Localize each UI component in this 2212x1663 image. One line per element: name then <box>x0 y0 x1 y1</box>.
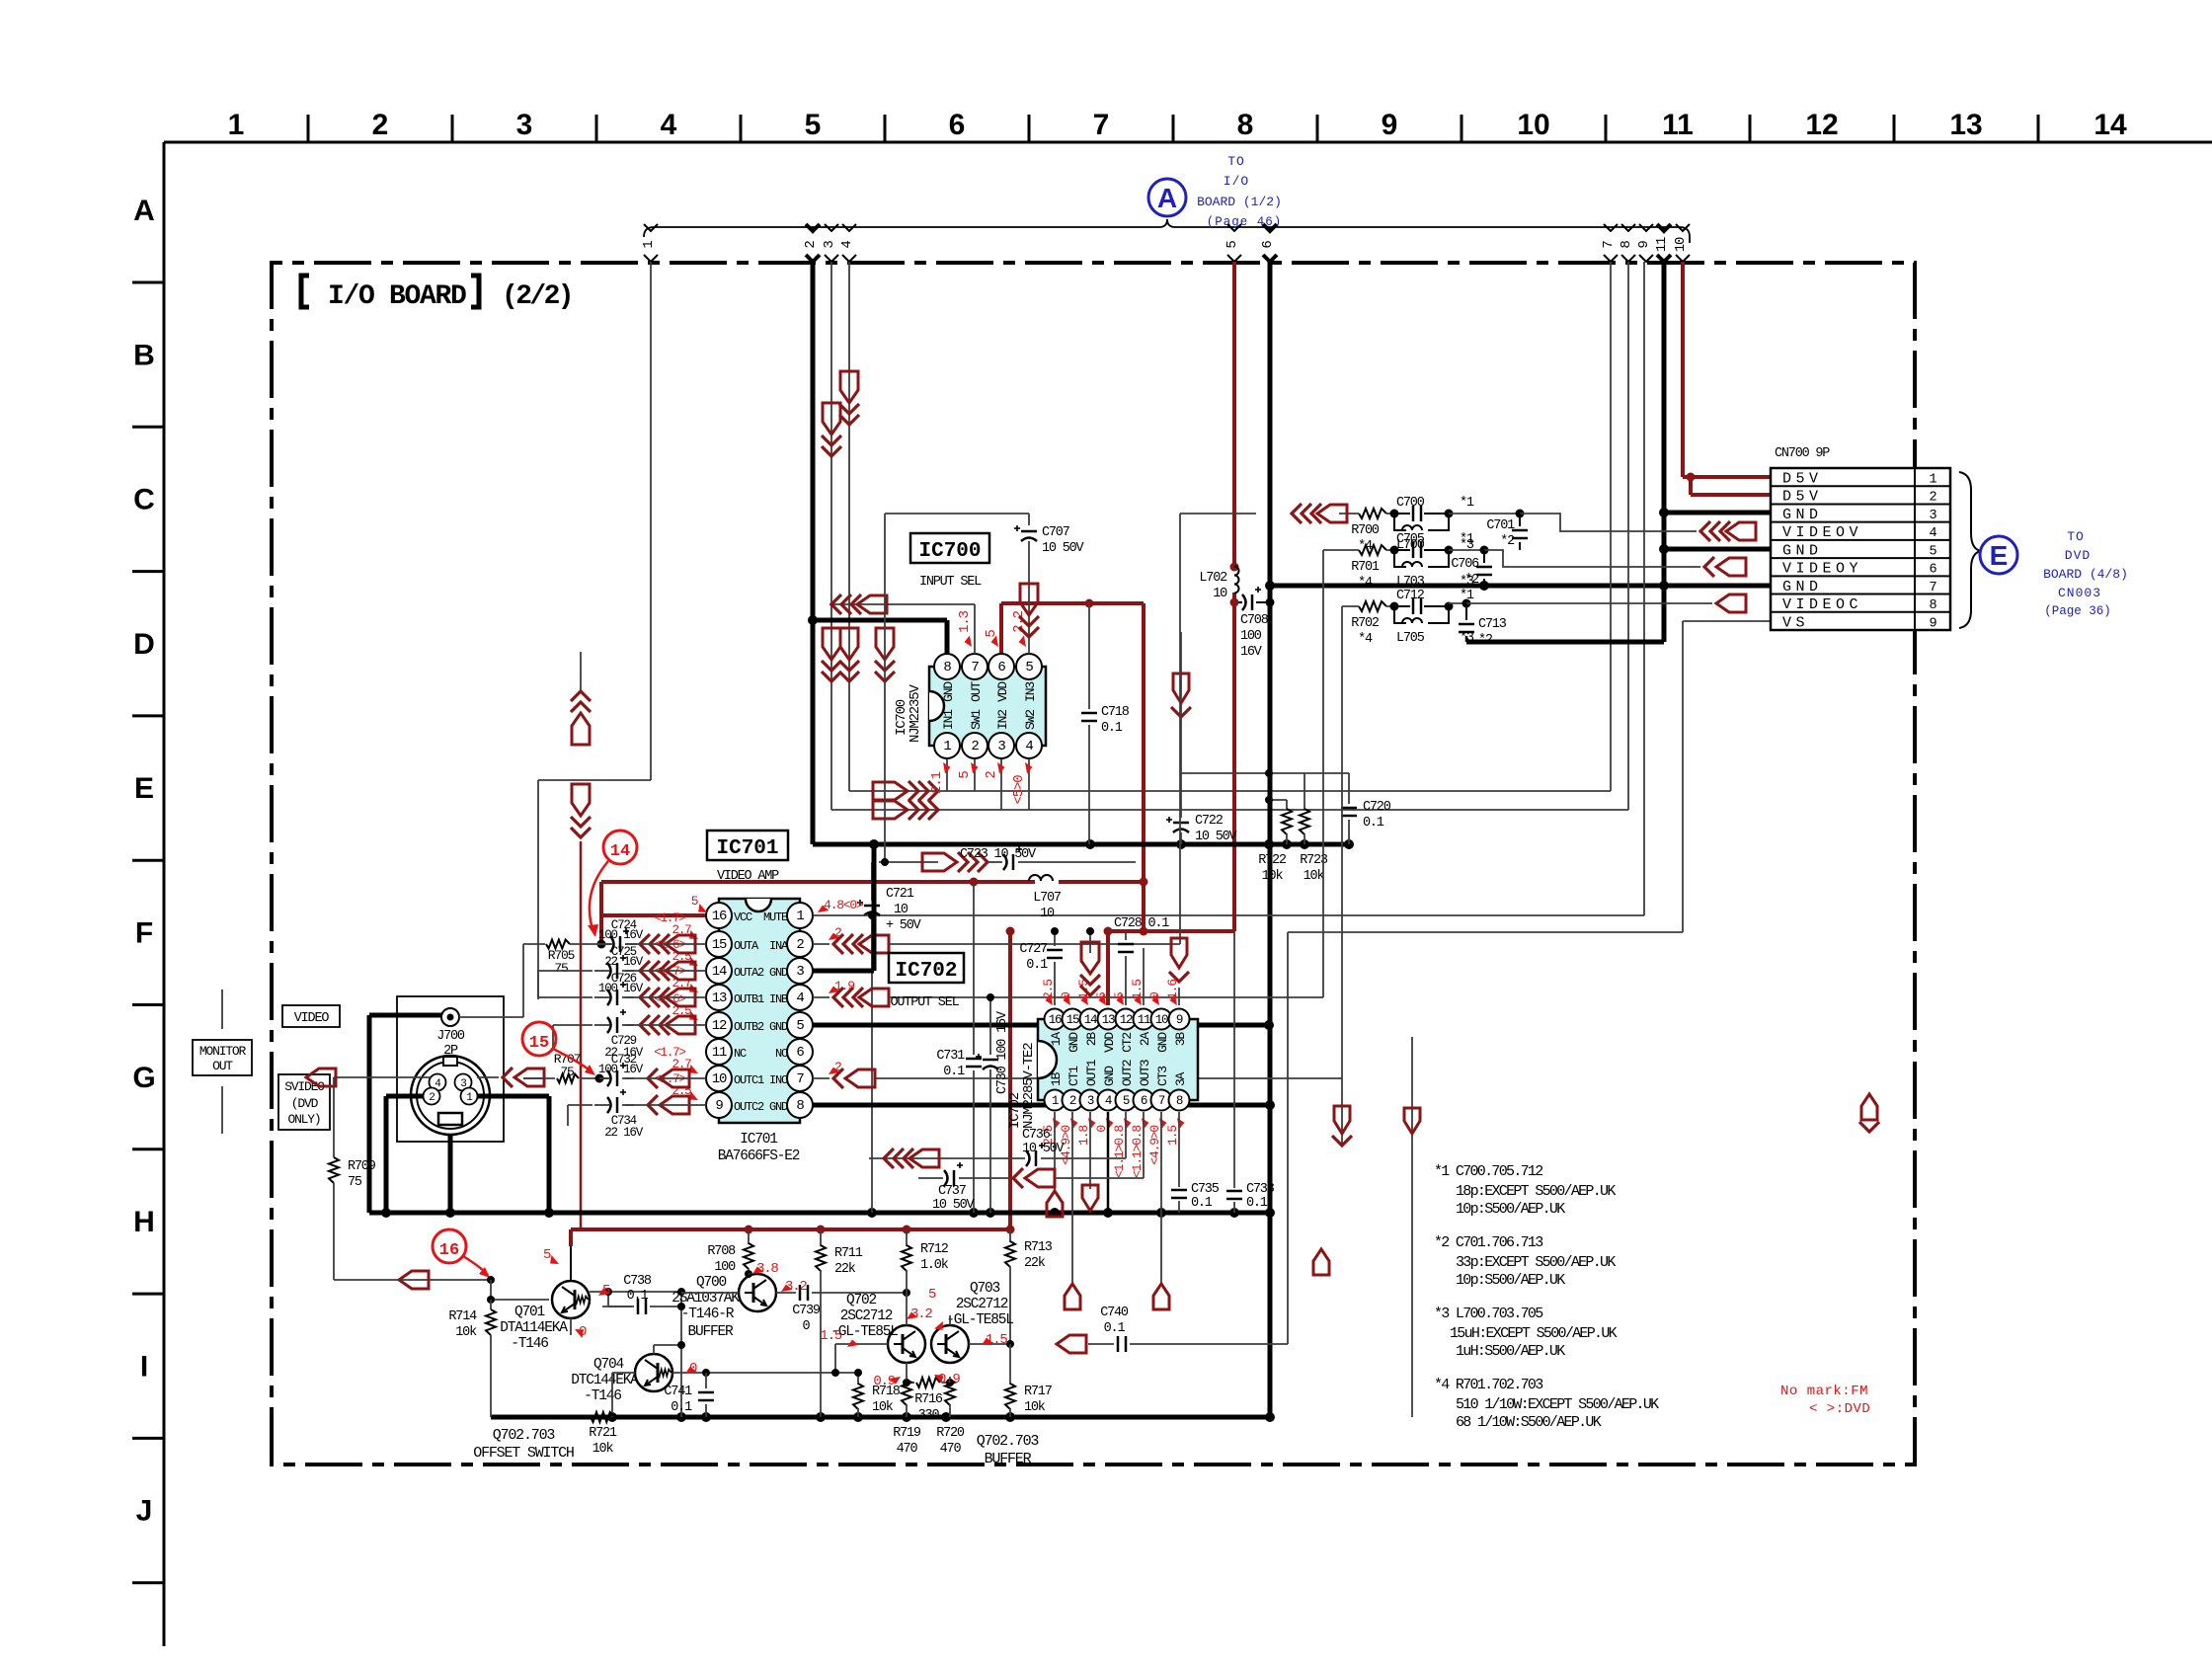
svg-text:2: 2 <box>429 1092 434 1104</box>
svg-text:GND: GND <box>769 1020 788 1034</box>
svg-text:C723 10 50V: C723 10 50V <box>960 847 1037 862</box>
op-amp IC700 (input select) <box>894 654 1046 758</box>
svg-text:L705: L705 <box>1396 631 1425 646</box>
resistor R722 <box>1258 800 1292 884</box>
svg-text:IC702: IC702 <box>895 960 957 983</box>
wire tag3 <box>831 262 1628 810</box>
bottom rail buffers <box>491 1412 1275 1422</box>
svg-text:10 50V: 10 50V <box>932 1198 976 1213</box>
svg-text:12: 12 <box>1805 109 1838 141</box>
capacitor C708 <box>1240 587 1269 660</box>
svg-text:L703: L703 <box>1396 575 1425 590</box>
resistor R723 <box>1300 773 1328 884</box>
svg-text:100: 100 <box>714 1260 736 1275</box>
svg-text:*2: *2 <box>1500 534 1515 549</box>
svg-text:22 16V: 22 16V <box>604 955 644 969</box>
capacitor C720 <box>1341 773 1391 844</box>
transistor Q700 <box>671 1274 776 1340</box>
svg-text:OUTB1: OUTB1 <box>734 992 764 1006</box>
svg-text:2: 2 <box>984 771 999 779</box>
svg-text:5: 5 <box>805 109 822 141</box>
label IC701 <box>707 831 788 884</box>
svg-text:7: 7 <box>971 660 979 675</box>
svg-text:0.1: 0.1 <box>671 1400 692 1415</box>
op-amp IC701 (video amp) <box>706 899 813 1123</box>
svg-text:C738: C738 <box>623 1274 652 1289</box>
svg-text:7: 7 <box>796 1071 804 1087</box>
svg-text:11: 11 <box>712 1045 727 1061</box>
svg-text:Q703: Q703 <box>970 1281 1000 1297</box>
op-amp IC702 (output select) <box>1007 1009 1198 1130</box>
note no-mark (red) <box>1780 1384 1870 1417</box>
svg-text:BUFFER: BUFFER <box>687 1324 734 1340</box>
connector A circle <box>1148 179 1186 216</box>
svg-text:C730 100 16V: C730 100 16V <box>995 1010 1010 1094</box>
svg-text:9: 9 <box>715 1098 723 1114</box>
capacitor C721 <box>857 862 922 1213</box>
svg-text:1: 1 <box>943 739 951 754</box>
bus to I/O board 1/2 <box>644 219 1690 243</box>
svg-text:VS: VS <box>1782 614 1809 631</box>
arrow VIDEOY <box>1704 557 1746 577</box>
svg-text:10 50V: 10 50V <box>1195 830 1238 844</box>
svg-text:33p:EXCEPT S500/AEP.UK: 33p:EXCEPT S500/AEP.UK <box>1456 1254 1616 1271</box>
capacitor C738 <box>604 1274 685 1417</box>
wire x1430 <box>1404 1037 1420 1417</box>
svg-text:1.5: 1.5 <box>1165 1126 1180 1146</box>
svg-text:MONITOR: MONITOR <box>199 1044 247 1059</box>
svg-text:C708: C708 <box>1240 613 1269 628</box>
svg-text:10k: 10k <box>1262 869 1284 884</box>
svg-text:22k: 22k <box>834 1262 856 1277</box>
resistor R712 <box>902 1229 949 1293</box>
wire tag <9> <box>1636 224 1653 262</box>
labels offset switch <box>473 1427 574 1462</box>
svg-text:VIDEO: VIDEO <box>294 1011 330 1026</box>
svg-text:*4 R701.702.703: *4 R701.702.703 <box>1434 1377 1543 1393</box>
svg-text:*4: *4 <box>1358 632 1373 647</box>
svg-text:C706: C706 <box>1451 557 1479 572</box>
svg-text:NJM2235V: NJM2235V <box>908 684 923 743</box>
callout 16 <box>433 1229 490 1278</box>
svg-text:8: 8 <box>1176 1094 1183 1108</box>
svg-text:J: J <box>136 1495 153 1528</box>
wire tag1 <box>538 262 651 999</box>
svg-text:GND: GND <box>1782 542 1823 559</box>
svg-text:16: 16 <box>439 1241 459 1260</box>
capacitor C722 <box>1166 632 1238 844</box>
offset switch wire <box>334 1271 549 1304</box>
svg-text:*1: *1 <box>1460 496 1474 511</box>
capacitor C740 <box>1057 1306 1147 1353</box>
wire tag <5> <box>1224 224 1241 262</box>
5V rail to buffers (maroon) <box>571 927 1015 1247</box>
svg-text:NJM2285V-TE2: NJM2285V-TE2 <box>1021 1043 1037 1129</box>
svg-text:100 16V: 100 16V <box>598 982 644 995</box>
svg-text:C: C <box>133 484 155 516</box>
svg-text:C707: C707 <box>1042 525 1070 540</box>
svg-text:10k: 10k <box>1303 869 1325 884</box>
svg-text:11: 11 <box>1654 237 1670 252</box>
title I/O BOARD (2/2) <box>301 276 572 312</box>
svg-text:16: 16 <box>1049 1013 1062 1027</box>
svg-text:7: 7 <box>1093 109 1110 141</box>
resistor R707 <box>523 1052 604 1083</box>
svg-text:R713: R713 <box>1024 1240 1053 1255</box>
svg-text:-T146-R: -T146-R <box>681 1307 735 1322</box>
svg-text:C713: C713 <box>1478 617 1507 632</box>
svg-text:C728 0.1: C728 0.1 <box>1114 916 1169 931</box>
decoupling C708 wire <box>1230 598 1275 607</box>
svg-text:3A: 3A <box>1173 1071 1188 1086</box>
IC702 pin voltages (red) <box>1041 980 1186 1178</box>
svg-text:2: 2 <box>796 937 804 953</box>
svg-text:6: 6 <box>1141 1094 1147 1108</box>
capacitor C736 <box>869 1128 1126 1168</box>
svg-text:5: 5 <box>984 630 999 638</box>
GND wire tag6 <box>1268 262 1273 1417</box>
IC701 pin voltages (red) <box>654 894 864 1103</box>
svg-text:5: 5 <box>1123 1094 1130 1108</box>
svg-text:E: E <box>134 772 154 805</box>
svg-text:*2: *2 <box>1464 573 1479 588</box>
svg-text:<5>0: <5>0 <box>1011 775 1027 805</box>
svg-text:IN3: IN3 <box>1023 682 1038 702</box>
svg-text:13: 13 <box>1102 1013 1115 1027</box>
svg-text:1.3: 1.3 <box>957 610 973 632</box>
5V wire tag10 (maroon) <box>1683 262 1771 495</box>
wire tag <6> <box>1260 224 1277 262</box>
svg-text:IC700: IC700 <box>918 540 981 563</box>
svg-text:5: 5 <box>1224 241 1240 249</box>
arrow IC702 pin14 <box>1080 927 1100 995</box>
svg-text:5: 5 <box>1025 660 1033 675</box>
svg-text:<1.1>0.8: <1.1>0.8 <box>1130 1126 1145 1178</box>
svg-text:L702: L702 <box>1199 571 1227 586</box>
svg-text:OUTA: OUTA <box>734 939 759 953</box>
svg-text:IN1: IN1 <box>941 709 956 730</box>
svg-text:75: 75 <box>560 1065 574 1079</box>
svg-text:0.1: 0.1 <box>627 1289 649 1304</box>
svg-text:C735: C735 <box>1191 1182 1220 1197</box>
svg-text:0.1: 0.1 <box>1363 816 1384 831</box>
svg-text:VDD: VDD <box>995 681 1010 702</box>
svg-text:10: 10 <box>894 903 908 917</box>
svg-text:C700: C700 <box>1396 496 1425 511</box>
svg-text:10 50V: 10 50V <box>1042 541 1085 556</box>
svg-text:C720: C720 <box>1363 800 1391 815</box>
svg-text:TO: TO <box>2067 529 2085 544</box>
arrow IC702 pin9 <box>1144 938 1189 1005</box>
svg-text:OUTPUT SEL: OUTPUT SEL <box>890 995 959 1010</box>
svg-text:7: 7 <box>1158 1094 1165 1108</box>
svg-text:C731: C731 <box>936 1049 965 1064</box>
svg-text:5: 5 <box>796 1018 804 1034</box>
svg-text:2B: 2B <box>1084 1032 1099 1047</box>
svg-text:100 16V: 100 16V <box>598 928 644 942</box>
svg-text:470: 470 <box>897 1442 918 1457</box>
capacitor C701 <box>1486 514 1528 550</box>
svg-text:C712: C712 <box>1396 589 1425 603</box>
svg-text:VDD: VDD <box>1102 1032 1117 1053</box>
svg-text:1A: 1A <box>1049 1032 1064 1047</box>
GND wire C713 <box>1466 640 1664 645</box>
svg-text:TO: TO <box>1227 154 1245 169</box>
svg-text:OUT: OUT <box>969 681 984 702</box>
capacitor C733 <box>1226 931 1275 1213</box>
svg-text:OUTC1: OUTC1 <box>734 1073 764 1087</box>
resistor R708 <box>707 1229 757 1278</box>
wire tag <1> <box>641 224 658 262</box>
svg-text:Q702.703: Q702.703 <box>977 1433 1040 1450</box>
5V supply arrows <box>571 652 591 1229</box>
callout 15 <box>522 1022 595 1075</box>
svg-text:8: 8 <box>1619 241 1634 249</box>
svg-text:BUFFER: BUFFER <box>985 1451 1032 1467</box>
svg-text:2: 2 <box>1069 1094 1076 1108</box>
svg-text:10: 10 <box>712 1071 727 1087</box>
capacitor C728 <box>1114 916 1169 1005</box>
svg-text:9: 9 <box>1176 1013 1183 1027</box>
svg-text:*2 C701.706.713: *2 C701.706.713 <box>1434 1234 1543 1251</box>
svg-text:1B: 1B <box>1049 1071 1064 1086</box>
resistor R716 <box>903 1378 954 1423</box>
svg-text:DVD: DVD <box>2065 548 2091 563</box>
svg-text:16: 16 <box>712 909 727 924</box>
svg-text:1: 1 <box>641 241 657 249</box>
resistor R713 <box>1005 1229 1053 1344</box>
svg-text:470: 470 <box>940 1442 962 1457</box>
arrows IC701 outputs <box>640 934 695 1115</box>
label VIDEO box <box>282 1005 340 1027</box>
svg-text:C736: C736 <box>1022 1128 1051 1143</box>
svg-text:9: 9 <box>1930 616 1937 631</box>
svg-text:0.1: 0.1 <box>1191 1196 1213 1211</box>
svg-text:0: 0 <box>803 1319 811 1334</box>
svg-text:2: 2 <box>372 109 389 141</box>
svg-text:R708: R708 <box>707 1244 736 1259</box>
svg-text:D5V: D5V <box>1782 489 1823 506</box>
capacitors C724-C734 <box>594 918 644 1140</box>
svg-text:GND: GND <box>769 1100 788 1114</box>
svg-text:10: 10 <box>1517 109 1549 141</box>
label TO DVD BOARD <box>2043 529 2128 618</box>
svg-text:IC701: IC701 <box>716 837 778 860</box>
svg-text:(2/2): (2/2) <box>502 281 572 312</box>
svg-text:<1.1>0.8: <1.1>0.8 <box>1112 1126 1127 1178</box>
svg-text:3B: 3B <box>1173 1032 1188 1047</box>
svg-text:(Page 36): (Page 36) <box>2044 604 2111 618</box>
svg-text:68 1/10W:S500/AEP.UK: 68 1/10W:S500/AEP.UK <box>1456 1414 1602 1431</box>
svg-text:6: 6 <box>1260 241 1276 249</box>
svg-text:< >:DVD: < >:DVD <box>1809 1401 1870 1417</box>
svg-text:R717: R717 <box>1024 1385 1053 1399</box>
svg-text:13: 13 <box>1949 109 1982 141</box>
svg-text:10: 10 <box>1155 1013 1168 1027</box>
label IC700 <box>910 533 989 590</box>
connector J700 (S-video DIN) <box>397 996 504 1142</box>
svg-text:C737: C737 <box>938 1184 967 1199</box>
label IC702 <box>889 953 964 1010</box>
svg-text:C733: C733 <box>1246 1182 1275 1197</box>
svg-text:3: 3 <box>796 964 804 980</box>
svg-text:*1: *1 <box>1460 532 1474 547</box>
wire tag <11> <box>1654 224 1671 262</box>
svg-text:(Page 46): (Page 46) <box>1207 215 1283 229</box>
wire tag <2> <box>803 224 820 262</box>
svg-text:D5V: D5V <box>1782 471 1823 488</box>
VS wire <box>1147 621 1771 1344</box>
resistor R711 <box>816 1229 863 1417</box>
svg-text:8: 8 <box>1237 109 1254 141</box>
svg-text:2: 2 <box>803 241 819 249</box>
callout 14 <box>588 831 637 937</box>
brace CN700 <box>1959 472 1981 628</box>
GND rail E-row <box>813 839 1354 849</box>
arrows on input wires <box>822 371 895 681</box>
svg-text:BA7666FS-E2: BA7666FS-E2 <box>718 1148 800 1164</box>
svg-text:4: 4 <box>1105 1094 1112 1108</box>
svg-text:R722: R722 <box>1258 853 1287 868</box>
svg-text:12: 12 <box>1120 1013 1133 1027</box>
svg-text:75: 75 <box>348 1175 362 1190</box>
svg-text:2.1: 2.1 <box>929 771 945 793</box>
svg-text:75: 75 <box>554 961 568 976</box>
svg-text:Q701: Q701 <box>514 1305 545 1320</box>
svg-text:OUTB2: OUTB2 <box>734 1020 764 1034</box>
capacitor C739 <box>792 1285 910 1334</box>
svg-text:3: 3 <box>822 241 837 249</box>
svg-text:1: 1 <box>228 109 245 141</box>
svg-text:2.5: 2.5 <box>1041 980 1056 999</box>
svg-text:16V: 16V <box>1240 645 1263 660</box>
svg-text:0.1: 0.1 <box>1104 1321 1126 1336</box>
svg-text:SW1: SW1 <box>969 709 984 730</box>
svg-text:-T146: -T146 <box>584 1388 621 1404</box>
svg-text:NC: NC <box>775 1047 788 1061</box>
label MONITOR OUT box <box>193 990 252 1134</box>
svg-text:4: 4 <box>1025 739 1033 754</box>
svg-text:R709: R709 <box>348 1159 376 1174</box>
svg-text:*1 C700.705.712: *1 C700.705.712 <box>1434 1163 1542 1180</box>
I/O board boundary (dash-dot) <box>272 263 1915 1465</box>
svg-text:R711: R711 <box>834 1246 863 1261</box>
svg-text:10k: 10k <box>872 1400 894 1415</box>
svg-text:2SC2712: 2SC2712 <box>956 1297 1008 1312</box>
svg-text:15uH:EXCEPT S500/AEP.UK: 15uH:EXCEPT S500/AEP.UK <box>1450 1325 1618 1342</box>
svg-text:R721: R721 <box>589 1426 617 1441</box>
resistor R714 <box>448 1300 496 1417</box>
svg-text:5: 5 <box>691 894 698 909</box>
wire tag9 (MUTE) <box>872 262 1644 915</box>
IC700 pin voltages (red) <box>929 610 1034 804</box>
wire y810 y783 <box>1181 769 1349 804</box>
svg-text:C705: C705 <box>1396 532 1425 547</box>
svg-text:18p:EXCEPT S500/AEP.UK: 18p:EXCEPT S500/AEP.UK <box>1456 1183 1616 1200</box>
wires IC701 left pins <box>538 944 706 1126</box>
svg-text:No mark:FM: No mark:FM <box>1780 1384 1868 1399</box>
capacitor C718 <box>1081 603 1130 844</box>
svg-text:NC: NC <box>734 1047 747 1061</box>
svg-text:3: 3 <box>516 109 533 141</box>
filter R701/C705/L703 <box>1323 532 1700 591</box>
transistor Q703 <box>931 1281 1013 1363</box>
svg-text:G: G <box>132 1062 155 1094</box>
svg-text:10k: 10k <box>1024 1400 1046 1415</box>
svg-text:*2: *2 <box>1478 633 1493 648</box>
svg-text:C701: C701 <box>1486 518 1515 533</box>
capacitor C737 <box>918 1162 1144 1213</box>
resistor R718 <box>853 1369 901 1417</box>
resistor R721 <box>589 1412 617 1457</box>
svg-text:10: 10 <box>1040 907 1055 921</box>
filter R700/C700/L700 <box>1180 496 1697 554</box>
5V wire tag5 (maroon) <box>1104 262 1239 1005</box>
svg-text:CN700 9P: CN700 9P <box>1775 446 1830 461</box>
svg-text:GND: GND <box>941 681 956 702</box>
svg-text:4.8<0>: 4.8<0> <box>824 898 864 912</box>
svg-text:10: 10 <box>1673 237 1689 252</box>
svg-text:GND: GND <box>1782 507 1823 523</box>
svg-text:0.1: 0.1 <box>1026 958 1048 973</box>
svg-text:Q704: Q704 <box>593 1357 624 1373</box>
svg-text:14: 14 <box>712 964 727 980</box>
svg-text:R700: R700 <box>1351 523 1380 538</box>
svg-text:OUT2: OUT2 <box>1120 1060 1135 1086</box>
capacitor C731 <box>936 882 982 1213</box>
svg-text:I/O BOARD: I/O BOARD <box>328 281 466 312</box>
svg-text:R719: R719 <box>893 1426 921 1441</box>
wire tag <8> <box>1619 224 1635 262</box>
wire tag <3> <box>822 224 838 262</box>
svg-text:1.0k: 1.0k <box>920 1258 949 1273</box>
svg-text:GND: GND <box>769 966 788 980</box>
svg-text:R712: R712 <box>920 1242 949 1257</box>
svg-text:5: 5 <box>928 1287 936 1303</box>
svg-text:INA: INA <box>769 939 789 953</box>
svg-text:4: 4 <box>839 241 855 249</box>
svg-text:22 16V: 22 16V <box>604 1126 644 1140</box>
svg-text:I/O: I/O <box>1224 174 1249 189</box>
svg-text:INC: INC <box>769 1073 788 1087</box>
svg-text:8: 8 <box>943 660 951 675</box>
svg-text:(DVD: (DVD <box>291 1096 319 1111</box>
svg-text:J700: J700 <box>436 1029 465 1044</box>
svg-text:14: 14 <box>1084 1013 1097 1027</box>
resistor R717 <box>1005 1344 1053 1417</box>
svg-text:OUT3: OUT3 <box>1138 1060 1152 1086</box>
svg-text:H: H <box>133 1206 155 1238</box>
svg-text:OUTC2: OUTC2 <box>734 1100 764 1114</box>
wire tag <10> <box>1673 224 1690 262</box>
arrow VIDEOV <box>1700 521 1756 541</box>
wire tag4 <box>849 262 1611 791</box>
svg-text:VIDEOV: VIDEOV <box>1782 524 1862 541</box>
wires IC702 bottom <box>1055 1112 1179 1284</box>
capacitor C727 <box>1019 927 1063 1005</box>
svg-text:11: 11 <box>1662 109 1694 141</box>
resistor R709 <box>329 1077 376 1280</box>
svg-text:510 1/10W:EXCEPT S500/AEP.UK: 510 1/10W:EXCEPT S500/AEP.UK <box>1456 1396 1659 1413</box>
svg-text:INPUT SEL: INPUT SEL <box>919 575 982 590</box>
svg-text:E: E <box>1990 540 2009 571</box>
svg-text:10 50V: 10 50V <box>1022 1142 1066 1156</box>
svg-text:1: 1 <box>1052 1094 1059 1108</box>
svg-text:3: 3 <box>1087 1094 1094 1108</box>
svg-text:A: A <box>1157 183 1177 213</box>
svg-text:1uH:S500/AEP.UK: 1uH:S500/AEP.UK <box>1456 1343 1565 1360</box>
resistor R719 <box>893 1377 921 1457</box>
